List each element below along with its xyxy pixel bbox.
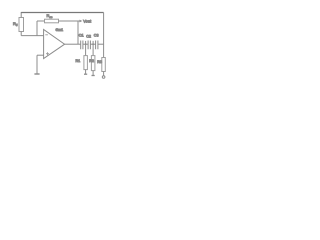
wire output vertical	[77, 21, 79, 44]
capacitor C2	[86, 34, 91, 49]
wire R2 lead	[92, 71, 94, 76]
wire C2-C3	[90, 43, 95, 45]
resistor Rsc	[45, 13, 59, 23]
wire C1-C2	[83, 43, 88, 45]
wire non-inverting stub	[37, 54, 44, 56]
resistor Rg	[13, 18, 24, 32]
op-amp U1	[44, 28, 65, 59]
svg-text:Vout: Vout	[83, 18, 92, 23]
svg-text:Gm1: Gm1	[56, 28, 64, 32]
node junction 1	[85, 43, 87, 45]
wire op-amp output	[65, 43, 81, 45]
ground R1	[84, 73, 87, 75]
svg-text:C1: C1	[79, 33, 84, 37]
node junction 2	[92, 43, 94, 45]
wire top feedback	[21, 12, 103, 14]
wire dropper 2	[92, 41, 94, 56]
resistor R3	[97, 58, 105, 72]
ground	[34, 73, 39, 75]
wire dropper 1	[85, 41, 87, 56]
wire Rg bottom lead	[20, 32, 22, 36]
arrow Vout	[80, 20, 83, 23]
resistor R1	[76, 56, 88, 70]
svg-text:Rg: Rg	[13, 21, 18, 27]
wire inverting input	[21, 35, 43, 37]
svg-text:C2: C2	[86, 34, 91, 38]
wire C3 right	[98, 43, 104, 45]
wire R3 lead	[103, 72, 105, 76]
resistor R2	[89, 56, 95, 71]
svg-text:R2: R2	[89, 59, 94, 63]
svg-text:C3: C3	[94, 33, 99, 37]
wire R1 lead	[85, 70, 87, 74]
wire Rg top lead	[20, 12, 22, 18]
capacitor C1	[79, 33, 84, 49]
wire right vertical	[103, 13, 105, 58]
svg-text:R3: R3	[97, 60, 102, 64]
wire minus node vertical	[36, 21, 38, 36]
svg-text:Rsc: Rsc	[47, 13, 53, 19]
wire to ground	[36, 55, 38, 73]
terminal node	[102, 76, 105, 79]
svg-text:R1: R1	[76, 59, 81, 63]
capacitor C3	[94, 33, 99, 49]
wire Rsc left	[37, 20, 45, 22]
wire Rsc right	[59, 20, 80, 22]
ground R2	[92, 75, 95, 77]
